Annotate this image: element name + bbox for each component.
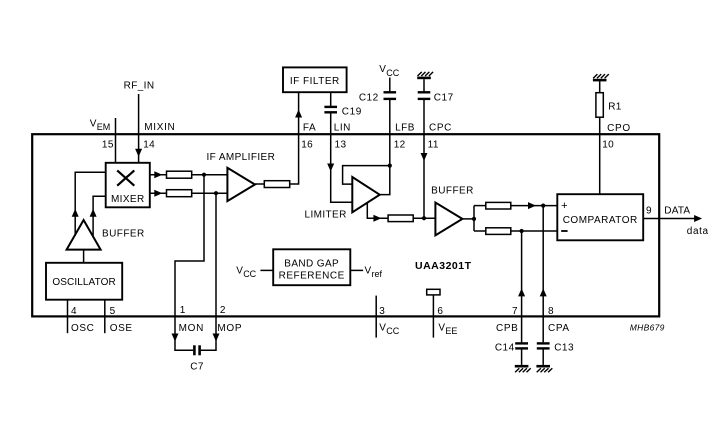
wire pin 8 CPA [542,206,544,343]
node LFB junction [388,164,392,168]
svg-text:LIN: LIN [334,123,351,134]
op-amp IF amplifier [227,168,255,201]
capacitor C13 [537,342,574,353]
svg-text:7: 7 [512,306,518,317]
svg-text:C7: C7 [190,362,204,373]
svg-text:C12: C12 [359,92,379,103]
ground (below C14) [515,366,531,372]
svg-text:2: 2 [220,305,226,316]
svg-text:4: 4 [71,306,77,317]
op-amp limiter [352,177,379,212]
svg-text:6: 6 [437,306,443,317]
node CPB junction [520,229,524,233]
svg-text:V: V [379,322,386,333]
svg-text:OSCILLATOR: OSCILLATOR [52,277,115,288]
capacitor C7 [190,345,204,372]
svg-text:MON: MON [179,323,204,334]
svg-text:data: data [687,226,709,237]
band gap reference box [273,249,350,285]
wire pin 7 CPB [521,231,523,342]
svg-text:MHB679: MHB679 [630,322,665,332]
label VCC (top) [379,64,399,78]
node junction upper [202,173,206,177]
wire C13 to ground [542,349,544,365]
capacitor C12 [359,92,396,103]
svg-text:RF_IN: RF_IN [124,80,155,91]
capacitor C19 [324,107,362,118]
pin 5 wire (OSE) [104,300,106,334]
svg-text:12: 12 [394,139,406,150]
svg-text:1: 1 [180,305,186,316]
wire to comparator minus input [474,230,486,232]
oscillator box [46,263,122,300]
wire pin 9 DATA output [643,218,695,220]
wire pin 1 MON [175,175,204,342]
node junction lower [214,191,218,195]
wire resistor to IF amplifier (upper) [192,174,228,176]
wire VCC to band gap [260,269,273,271]
svg-text:14: 14 [143,139,155,150]
wire pin 13 LIN lower to limiter [331,113,353,202]
svg-text:+: + [561,200,567,212]
buffer B2 [435,203,462,236]
svg-text:CC: CC [386,68,399,78]
resistor (comparator plus path) [486,202,511,209]
label Vref [365,265,383,279]
resistor (mixer lower output) [167,190,192,197]
capacitor C14 [495,342,528,353]
resistor (limiter output) [388,215,413,222]
svg-text:MOP: MOP [217,323,242,334]
mixer box [106,163,150,208]
resistor (mixer upper output) [167,171,192,178]
wire IF amplifier output [255,183,264,185]
svg-text:13: 13 [335,139,347,150]
svg-text:REFERENCE: REFERENCE [279,270,345,281]
svg-text:OSE: OSE [110,323,133,334]
comparator box [557,194,643,240]
wire pin 11 CPC [423,100,425,218]
wire resistor to IF amplifier (lower) [192,192,228,194]
wire ground to C17 [423,79,425,91]
svg-text:DATA: DATA [664,206,690,217]
label VEM [90,118,111,132]
wire mixer to buffer (right) [93,196,106,237]
wire buffer B2 output [462,218,474,220]
svg-text:V: V [438,322,445,333]
substrate terminal pin 6 [427,289,440,295]
wire ground to R1 [599,81,601,92]
wire pin 1 to C7 [175,342,193,351]
svg-text:MIXIN: MIXIN [144,122,175,133]
label VCC (band gap input) [236,265,256,279]
svg-text:BUFFER: BUFFER [431,185,474,196]
svg-text:MIXER: MIXER [111,194,145,205]
wire pin 2 MOP [215,193,217,341]
ground (top of C17) [417,72,433,78]
svg-text:OSC: OSC [71,323,94,334]
ground (below C13) [536,366,552,372]
svg-text:8: 8 [548,306,554,317]
svg-text:UAA3201T: UAA3201T [415,260,472,272]
IF filter box [283,67,347,92]
svg-text:V: V [379,64,386,75]
node buffer output split [472,217,476,221]
node CPA junction [541,204,545,208]
wire band gap to Vref [350,269,363,271]
svg-text:C19: C19 [342,107,362,118]
wire pin 10 CPO to comparator [599,117,601,194]
svg-text:16: 16 [301,139,313,150]
svg-text:FA: FA [303,123,316,134]
node CPC junction [422,216,426,220]
wire resistor to buffer B2 [413,217,435,219]
capacitor C17 [418,92,454,103]
svg-text:ref: ref [372,269,383,279]
svg-text:CPA: CPA [548,323,570,334]
wire limiter output [367,203,388,219]
svg-text:LIMITER: LIMITER [305,210,347,221]
wire mixer upper output [150,174,167,176]
IC outline UAA3201T [32,134,659,316]
label VCC (pin 3) [379,322,399,336]
svg-text:V: V [90,118,97,129]
svg-text:V: V [365,265,372,276]
svg-text:9: 9 [646,205,652,216]
svg-text:C17: C17 [434,92,454,103]
svg-text:C14: C14 [495,342,515,353]
svg-text:V: V [236,265,243,276]
svg-text:15: 15 [102,139,114,150]
wire resistor to comparator minus [511,230,558,232]
svg-text:3: 3 [379,306,385,317]
svg-text:CPB: CPB [496,323,518,334]
resistor (IF amplifier output) [264,181,289,188]
wire pin 12 LFB [389,100,391,166]
svg-text:BUFFER: BUFFER [102,229,145,240]
label VEE (pin 6) [438,322,457,336]
wire pin 6 VEE [432,295,434,338]
svg-text:R1: R1 [608,102,622,113]
resistor (comparator minus path) [486,228,511,235]
svg-text:CC: CC [243,269,256,279]
svg-text:IF FILTER: IF FILTER [290,76,340,87]
svg-text:EM: EM [97,122,111,132]
pin 14 wire (RF_IN/MIXIN) [138,94,140,163]
svg-text:5: 5 [110,306,116,317]
buffer B1 (oscillator buffer) [67,220,101,250]
svg-text:IF AMPLIFIER: IF AMPLIFIER [207,152,276,163]
svg-text:CPO: CPO [607,123,631,134]
svg-text:CC: CC [386,326,399,336]
svg-text:LFB: LFB [395,123,415,134]
svg-text:COMPARATOR: COMPARATOR [563,215,638,226]
pin 4 wire (OSC) [67,300,69,334]
wire pin 2 to C7 [201,342,216,351]
svg-text:BAND GAP: BAND GAP [284,259,339,270]
wire to pin 16 FA [290,92,299,184]
wire mixer to buffer (left) [75,172,106,236]
wire pin 13 LIN upper [330,92,332,106]
wire resistor to comparator plus [511,205,558,207]
wire split vertical [473,206,475,231]
pin 15 wire (VEM) [115,118,117,163]
svg-text:CPC: CPC [429,123,452,134]
svg-text:11: 11 [428,139,439,150]
wire oscillator to buffer [83,250,85,263]
wire to comparator plus input [474,205,486,207]
wire VCC to C12 [389,78,391,92]
wire limiter feedback loop [343,166,390,195]
wire mixer lower output [150,192,167,194]
svg-text:EE: EE [445,326,457,336]
wire pin 3 VCC [375,296,377,338]
ground (top of R1) [593,74,609,80]
svg-text:C13: C13 [554,342,574,353]
wire C14 to ground [521,349,523,365]
resistor R1 [596,93,622,118]
svg-text:10: 10 [602,139,614,150]
